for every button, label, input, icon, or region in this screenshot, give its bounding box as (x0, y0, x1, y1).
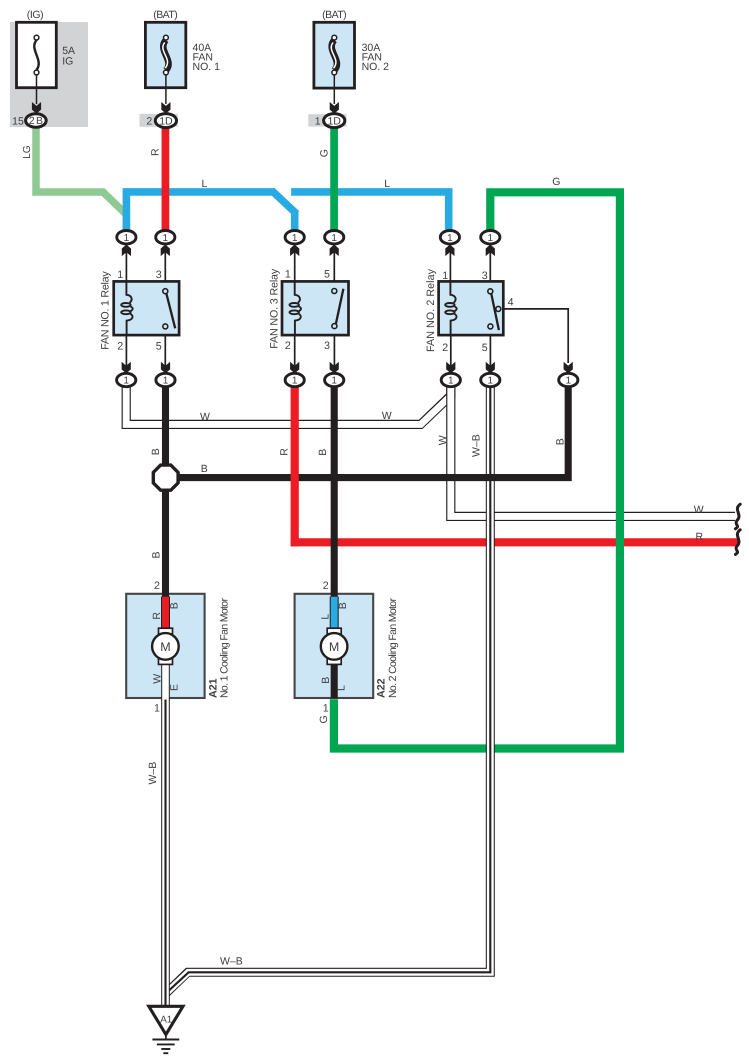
svg-text:G: G (318, 715, 330, 723)
arrow relay3 pin5 (330, 245, 339, 257)
fuse 40A box (145, 22, 185, 87)
svg-text:G: G (319, 149, 331, 157)
svg-text:5: 5 (482, 342, 488, 354)
svg-text:A21: A21 (207, 678, 219, 698)
svg-text:E: E (168, 684, 180, 691)
connector 1D f2 oval (324, 114, 345, 128)
arrow relay2 pin1 (445, 245, 454, 257)
svg-text:R: R (151, 612, 163, 620)
oval relay3 pin5 (325, 231, 344, 244)
svg-text:2: 2 (154, 580, 160, 592)
svg-text:B: B (320, 677, 332, 684)
svg-text:15: 15 (12, 115, 24, 127)
fuse 30A box (314, 22, 355, 88)
svg-text:1D: 1D (159, 115, 173, 127)
relay R1 pin line 5 (164, 329, 166, 368)
svg-text:IG: IG (62, 55, 73, 67)
connector 1D f1 gray tag (140, 114, 178, 127)
svg-text:2B: 2B (29, 116, 43, 127)
fuse 30A element (331, 35, 337, 75)
svg-text:R: R (150, 148, 162, 156)
svg-text:No. 2 Cooling Fan Motor: No. 2 Cooling Fan Motor (387, 598, 399, 699)
relay R3 pin line 3 (333, 328, 335, 368)
relay R2 switch (488, 289, 501, 330)
svg-text:1: 1 (163, 376, 169, 387)
oval relay3 pin3 (325, 373, 344, 386)
relay R3 pin line 1 (294, 249, 296, 281)
svg-text:1: 1 (331, 233, 337, 244)
lead line f1 (165, 75, 167, 104)
svg-text:1: 1 (124, 233, 130, 244)
relay R3 pin line 2 (294, 335, 296, 368)
wire W-B (motor A21 to ground A1) (161, 700, 170, 1008)
svg-text:3: 3 (482, 270, 488, 282)
connector 1D f2 gray tag (308, 114, 346, 126)
arrow relay2 pin2 (446, 362, 455, 374)
fuse IG gray panel (10, 22, 88, 127)
fuse IG element (34, 35, 39, 75)
lead line f2 (333, 75, 335, 104)
svg-text:B: B (150, 448, 162, 455)
svg-text:2: 2 (146, 115, 152, 127)
svg-text:B: B (201, 463, 208, 475)
wire R horizontal (off-page right) (291, 538, 738, 546)
relay R1 switch (163, 289, 175, 329)
connector 2B oval (26, 114, 47, 128)
svg-text:W: W (151, 674, 163, 684)
oval relay1 pin3 (156, 231, 175, 244)
oval relay1 pin2 (117, 373, 136, 386)
svg-text:B: B (337, 602, 349, 609)
svg-text:W–B: W–B (147, 762, 159, 785)
motor A22 symbol (321, 628, 348, 664)
wire W (relay2 pin2 down and off-page right) (451, 384, 735, 516)
svg-text:R: R (696, 531, 704, 543)
svg-text:2: 2 (323, 580, 329, 592)
relay R3 coil (290, 281, 302, 337)
svg-text:NO. 1: NO. 1 (193, 61, 221, 73)
relay R3 box (282, 281, 349, 335)
svg-text:B: B (555, 438, 567, 445)
fuse IG box (17, 22, 57, 87)
svg-text:5: 5 (324, 268, 330, 280)
MOTOR A21 box (126, 594, 204, 698)
connector 1D f1 oval (155, 114, 176, 128)
relay R2 pin line 5 (489, 329, 491, 368)
arrow relay1 pin5 (161, 362, 170, 374)
svg-text:R: R (279, 448, 291, 456)
oval relay2 pin5 (481, 373, 500, 386)
svg-text:1: 1 (447, 233, 453, 244)
arrow relay3 pin3 (330, 362, 339, 374)
oval relay3 pin2 (285, 373, 304, 386)
wire B (octagon to motor A21) (162, 489, 169, 601)
svg-text:3: 3 (156, 269, 162, 281)
svg-text:1: 1 (292, 233, 298, 244)
wire R (relay3 pin2 down to R horizontal) (291, 385, 299, 546)
arrow relay1 pin2 (122, 362, 131, 374)
svg-text:LG: LG (22, 145, 33, 159)
oval relay2 pin4 (559, 373, 578, 386)
node octagon junction (153, 465, 178, 490)
relay R2 pin line 3 (489, 249, 491, 289)
svg-text:2: 2 (117, 340, 123, 352)
svg-text:M: M (160, 640, 170, 654)
oval relay1 pin1 (117, 231, 136, 244)
svg-text:2: 2 (285, 340, 291, 352)
arrow into 1D f2 (330, 102, 339, 114)
svg-text:W–B: W–B (471, 434, 483, 457)
svg-text:A22: A22 (376, 678, 388, 698)
wire B (relay3 pin3 to motor A22) (331, 385, 338, 601)
arrow relay1 pin1 (122, 245, 131, 257)
svg-text:M: M (329, 640, 339, 654)
wire R (40A fuse to relay pin 3) (162, 127, 170, 231)
MOTOR A22 box (295, 594, 374, 698)
svg-text:1: 1 (323, 703, 329, 715)
svg-text:1: 1 (285, 268, 291, 280)
ground triangle A1 (149, 1006, 183, 1034)
relay R2 pin line 1 (449, 249, 451, 281)
motor A22 internal L segment (330, 597, 339, 630)
wire LG (IG fuse to FAN NO.1 relay pin 1) (36, 127, 127, 229)
svg-text:L: L (336, 685, 348, 691)
fuse 40A element (163, 35, 169, 75)
svg-text:B: B (169, 602, 181, 609)
ground stub (165, 1035, 167, 1039)
svg-text:1: 1 (488, 376, 494, 387)
arrow relay3 pin2 (290, 362, 299, 374)
arrow relay2 pin4 (564, 362, 573, 374)
wire G short (30A fuse to FAN NO.3 relay pin 5) (330, 127, 338, 231)
arrow relay3 pin1 (290, 245, 299, 257)
relay R3 switch (332, 289, 344, 329)
svg-text:W: W (694, 504, 704, 516)
wire G loop (relay2 pin3 - right side - motor A22) (334, 188, 624, 752)
svg-text:(IG): (IG) (27, 9, 44, 21)
lead line IG (36, 75, 38, 104)
arrow into 2B (32, 102, 41, 114)
motor A21 internal R segment (161, 597, 170, 630)
oval relay2 pin3 (481, 231, 500, 244)
CONNECTOR OVALS bottom row (117, 362, 578, 387)
CONNECTOR OVALS top row (117, 231, 500, 257)
svg-text:(BAT): (BAT) (322, 9, 347, 21)
break symbol R wire (735, 530, 740, 555)
svg-text:FAN NO. 2 Relay: FAN NO. 2 Relay (425, 268, 437, 352)
svg-text:1: 1 (488, 233, 494, 244)
svg-text:1: 1 (117, 269, 123, 281)
arrow relay2 pin5 (486, 362, 495, 374)
svg-text:G: G (552, 176, 560, 188)
relay R2 pin line 2 (450, 335, 452, 368)
relay R1 pin line 1 (125, 249, 127, 281)
svg-text:L: L (202, 178, 208, 190)
relay R2 coil (445, 281, 457, 337)
arrow relay2 pin3 (486, 245, 495, 257)
svg-text:W: W (200, 411, 210, 423)
svg-text:5: 5 (156, 340, 162, 352)
svg-text:1: 1 (315, 115, 321, 127)
oval relay1 pin5 (156, 373, 175, 386)
svg-text:B: B (151, 551, 163, 558)
svg-text:W: W (437, 435, 449, 445)
svg-text:1: 1 (448, 376, 454, 387)
oval relay3 pin1 (285, 231, 304, 244)
svg-text:1D: 1D (328, 115, 342, 127)
svg-text:3: 3 (324, 340, 330, 352)
svg-text:1: 1 (123, 376, 129, 387)
svg-text:B: B (317, 449, 329, 456)
svg-text:NO. 2: NO. 2 (362, 61, 390, 73)
relay R2 pin 4 wire (501, 309, 569, 363)
wire L (blue junction bus relay pins 1) (123, 190, 453, 229)
svg-text:A1: A1 (160, 1014, 172, 1025)
relay R1 box (114, 281, 179, 335)
relay R3 pin line 5 (333, 249, 335, 289)
svg-text:4: 4 (508, 297, 514, 309)
svg-text:L: L (384, 178, 390, 190)
svg-text:1: 1 (154, 703, 160, 715)
svg-text:1: 1 (163, 233, 169, 244)
svg-text:No. 1 Cooling Fan Motor: No. 1 Cooling Fan Motor (219, 598, 231, 699)
svg-text:FAN NO. 3 Relay: FAN NO. 3 Relay (269, 268, 281, 349)
break symbol W wire (735, 504, 740, 529)
svg-text:2: 2 (442, 342, 448, 354)
relay R1 coil (121, 281, 132, 337)
wire B (relay1 pin5 to octagon) (162, 385, 169, 466)
arrow relay1 pin3 (161, 245, 170, 257)
wire B (octagon junction to relay2 pin4) (172, 385, 568, 478)
oval relay2 pin2 (441, 373, 460, 386)
svg-text:FAN NO. 1 Relay: FAN NO. 1 Relay (100, 271, 112, 350)
svg-text:W–B: W–B (220, 956, 243, 968)
svg-text:1: 1 (566, 376, 572, 387)
oval relay2 pin1 (440, 231, 459, 244)
relay R1 pin line 3 (164, 249, 166, 289)
arrow into 1D f1 (161, 102, 170, 114)
motor A22 lower B segment (331, 662, 338, 699)
svg-text:1: 1 (442, 270, 448, 282)
wire W-B (relay2 pin5 down to ground run) (166, 384, 491, 994)
ground hatch (152, 1040, 179, 1054)
svg-text:W: W (382, 410, 392, 422)
motor A21 symbol (152, 628, 179, 664)
svg-text:1: 1 (331, 376, 337, 387)
svg-text:1: 1 (292, 376, 298, 387)
motor A21 lower W segment (161, 662, 170, 701)
wire W (relay1 pin2 to relay2 pin2) (126, 384, 451, 424)
svg-text:L: L (320, 614, 332, 620)
relay R1 pin line 2 (125, 335, 127, 368)
relay R2 box (439, 281, 504, 335)
svg-text:(BAT): (BAT) (153, 9, 178, 21)
